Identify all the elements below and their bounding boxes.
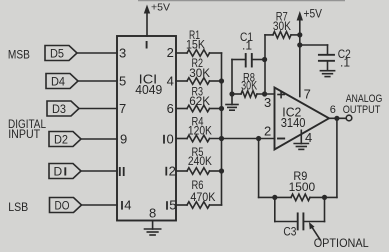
ground at R8 node <box>231 94 233 105</box>
svg-text:7: 7 <box>119 101 126 116</box>
svg-text:D5: D5 <box>50 47 64 61</box>
+5V supply wire op-amp <box>299 14 301 97</box>
junction bus-R2 <box>219 78 224 83</box>
wire D4 to pin 5 <box>78 80 117 82</box>
minus input sign <box>278 138 284 140</box>
pin 11 <box>120 167 124 176</box>
pin 15 <box>166 201 168 210</box>
svg-text:4: 4 <box>167 74 174 89</box>
junction R8-opamp+ <box>262 91 267 96</box>
output wire pin 6 <box>329 117 346 119</box>
svg-text:DO: DO <box>55 199 70 213</box>
resistor R4 120K + wire to op-amp pin 2 <box>176 138 187 140</box>
capacitor C1 .1 <box>231 60 233 95</box>
svg-text:.1: .1 <box>340 56 350 70</box>
ground IC1 <box>145 229 161 235</box>
plus input sign <box>278 91 284 97</box>
capacitor C3 <box>274 197 276 221</box>
svg-text:MSB: MSB <box>8 48 30 62</box>
input tag D1 <box>49 164 81 179</box>
wire D3 to pin 7 <box>79 108 117 110</box>
OPTIONAL arrow <box>311 226 320 240</box>
pin 4 ground stem <box>300 130 302 143</box>
junction C1-R7 <box>262 57 267 62</box>
svg-text:470K: 470K <box>190 190 215 204</box>
svg-text:30K: 30K <box>273 19 291 33</box>
op-amp U2 3140 <box>275 88 330 150</box>
input tag D3 <box>47 101 79 116</box>
svg-text:D2: D2 <box>54 133 68 147</box>
junction R9-C3 left <box>272 195 277 200</box>
svg-text:D3: D3 <box>52 102 66 116</box>
svg-text:8: 8 <box>149 206 156 221</box>
svg-text:OUTPUT: OUTPUT <box>343 104 381 116</box>
svg-text:120K: 120K <box>188 124 212 138</box>
resistor R8 30K <box>232 93 241 95</box>
junction R9-C3 right <box>322 195 327 200</box>
svg-text:7: 7 <box>304 87 311 102</box>
ground at pin 4 <box>294 144 308 150</box>
resistor R6 470K <box>176 204 187 206</box>
resistor R2 30K <box>176 80 187 82</box>
wire D0 to pin 14 <box>82 204 118 206</box>
svg-text:6: 6 <box>167 101 174 116</box>
svg-text:.1: .1 <box>242 39 252 53</box>
svg-text:62K: 62K <box>189 94 210 108</box>
input tag D5 <box>45 46 77 61</box>
svg-text:240K: 240K <box>188 154 212 168</box>
svg-text:2: 2 <box>264 124 271 139</box>
+5V supply wire IC1 <box>146 9 148 36</box>
resistor R5 240K <box>176 170 187 172</box>
svg-text:+5V: +5V <box>304 7 323 21</box>
pin 10 <box>163 135 165 144</box>
pin 14 <box>121 201 123 210</box>
svg-text:5: 5 <box>119 74 126 89</box>
input tag D2 <box>49 132 81 147</box>
svg-text:2: 2 <box>167 45 174 60</box>
junction bus-R5 <box>219 168 224 173</box>
wire D2 to pin 9 <box>81 138 117 140</box>
resistor R9 1500 <box>259 196 291 198</box>
svg-text:+5V: +5V <box>151 1 170 13</box>
resistor R3 62K <box>176 108 187 110</box>
svg-text:6: 6 <box>330 104 336 116</box>
svg-text:INPUT: INPUT <box>8 127 41 141</box>
feedback right wire <box>336 118 338 197</box>
svg-text:C3: C3 <box>283 225 296 239</box>
svg-text:3: 3 <box>119 46 126 61</box>
svg-text:ANALOG: ANALOG <box>346 93 383 105</box>
svg-text:15K: 15K <box>186 38 205 52</box>
svg-text:4049: 4049 <box>135 82 162 97</box>
ground at C2 <box>320 71 334 77</box>
svg-text:4: 4 <box>124 198 131 213</box>
wire D1 to pin 11 <box>81 170 117 172</box>
pin 8 ground stem <box>152 221 154 230</box>
svg-text:3140: 3140 <box>281 115 306 130</box>
wire D5 to pin 3 <box>77 52 117 54</box>
svg-text:D: D <box>54 165 63 179</box>
junction bus-R3 <box>219 106 224 111</box>
svg-text:30K: 30K <box>241 79 257 93</box>
junction R8-ground-C1 <box>229 91 234 96</box>
svg-text:1500: 1500 <box>289 180 316 194</box>
junction C2-+5V <box>297 42 302 47</box>
pin 1 <box>146 41 148 49</box>
capacitor C2 .1 <box>300 44 328 46</box>
svg-text:OPTIONAL: OPTIONAL <box>314 236 369 250</box>
svg-text:LSB: LSB <box>8 200 28 214</box>
resistor R7 30K <box>264 35 266 94</box>
svg-text:0: 0 <box>167 132 174 147</box>
summing bus wire <box>221 53 223 205</box>
resistor R1 15K <box>176 52 187 54</box>
junction output-feedback <box>334 116 339 121</box>
top border artifact <box>138 0 345 2</box>
input tag D0 <box>50 198 82 213</box>
svg-text:2: 2 <box>169 164 176 179</box>
output terminal <box>346 115 352 121</box>
junction pin2-feedback <box>256 136 261 141</box>
IC U1 4049 box <box>117 36 176 221</box>
pin 12 <box>165 167 167 176</box>
svg-text:30K: 30K <box>189 66 210 80</box>
feedback left wire <box>258 139 260 198</box>
junction R7-+5V <box>297 32 302 37</box>
svg-text:9: 9 <box>120 132 127 147</box>
svg-text:D4: D4 <box>51 75 65 89</box>
junction bus-R4 <box>219 136 224 141</box>
svg-text:3: 3 <box>264 95 271 110</box>
input tag D4 <box>46 74 78 89</box>
